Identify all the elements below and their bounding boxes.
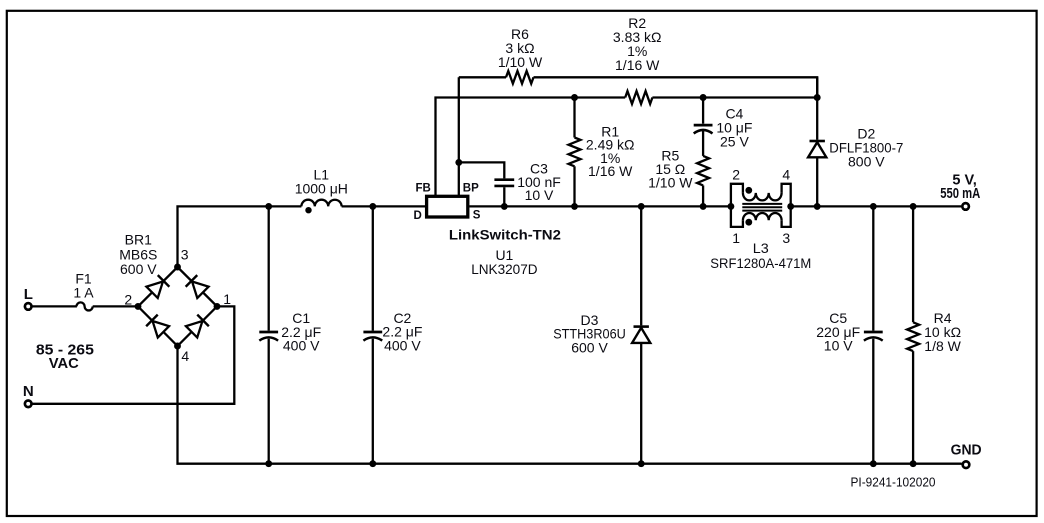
svg-text:L: L bbox=[24, 286, 33, 303]
svg-text:1: 1 bbox=[223, 291, 231, 307]
svg-text:800 V: 800 V bbox=[848, 154, 885, 170]
svg-text:SRF1280A-471M: SRF1280A-471M bbox=[710, 255, 811, 271]
svg-text:2: 2 bbox=[124, 292, 132, 308]
svg-text:1/16 W: 1/16 W bbox=[588, 163, 633, 179]
svg-text:LinkSwitch-TN2: LinkSwitch-TN2 bbox=[449, 228, 561, 243]
svg-text:10 V: 10 V bbox=[824, 338, 853, 354]
svg-text:3: 3 bbox=[181, 247, 189, 263]
svg-text:550 mA: 550 mA bbox=[940, 186, 980, 202]
svg-text:4: 4 bbox=[782, 167, 790, 183]
svg-text:3: 3 bbox=[782, 230, 790, 246]
svg-text:25 V: 25 V bbox=[720, 133, 749, 149]
svg-text:N: N bbox=[23, 383, 34, 400]
svg-text:1: 1 bbox=[732, 230, 740, 246]
svg-text:1/10 W: 1/10 W bbox=[498, 54, 543, 70]
svg-text:10 V: 10 V bbox=[525, 187, 554, 203]
svg-text:600 V: 600 V bbox=[571, 339, 608, 355]
svg-text:LNK3207D: LNK3207D bbox=[471, 261, 537, 277]
svg-text:400 V: 400 V bbox=[384, 337, 421, 353]
svg-text:1/10 W: 1/10 W bbox=[648, 175, 693, 191]
svg-text:D: D bbox=[413, 210, 421, 222]
svg-text:L3: L3 bbox=[753, 240, 769, 256]
svg-text:600 V: 600 V bbox=[120, 261, 157, 277]
svg-text:BR1: BR1 bbox=[125, 232, 152, 248]
svg-text:FB: FB bbox=[415, 182, 430, 194]
svg-text:BP: BP bbox=[463, 182, 479, 194]
svg-text:4: 4 bbox=[181, 348, 189, 364]
svg-text:400 V: 400 V bbox=[283, 338, 320, 354]
svg-text:1/8 W: 1/8 W bbox=[924, 338, 961, 354]
svg-text:1000 μH: 1000 μH bbox=[295, 181, 348, 197]
svg-text:1/16 W: 1/16 W bbox=[615, 57, 660, 73]
svg-text:MB6S: MB6S bbox=[119, 246, 157, 262]
svg-text:2: 2 bbox=[732, 167, 740, 183]
svg-text:VAC: VAC bbox=[49, 356, 79, 372]
svg-text:GND: GND bbox=[951, 443, 982, 459]
svg-text:1 A: 1 A bbox=[73, 285, 94, 301]
svg-text:PI-9241-102020: PI-9241-102020 bbox=[851, 475, 936, 489]
svg-text:S: S bbox=[473, 210, 481, 222]
